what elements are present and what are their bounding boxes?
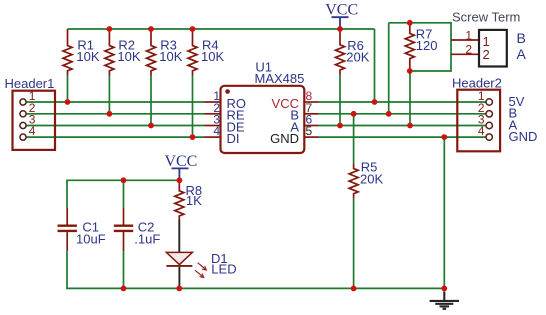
- svg-text:10K: 10K: [159, 49, 182, 64]
- svg-text:VCC: VCC: [272, 96, 299, 111]
- svg-text:VCC: VCC: [164, 153, 197, 170]
- svg-text:A: A: [517, 46, 527, 62]
- svg-text:GND: GND: [509, 129, 538, 144]
- svg-text:B: B: [517, 30, 526, 46]
- svg-text:1K: 1K: [186, 193, 202, 208]
- svg-text:5: 5: [306, 124, 313, 138]
- svg-text:DI: DI: [227, 131, 240, 146]
- svg-text:MAX485: MAX485: [255, 71, 305, 86]
- svg-text:VCC: VCC: [325, 2, 358, 19]
- svg-text:4: 4: [29, 124, 36, 138]
- svg-text:2: 2: [483, 47, 490, 62]
- svg-text:GND: GND: [270, 131, 299, 146]
- svg-text:10K: 10K: [201, 49, 224, 64]
- svg-text:1: 1: [465, 28, 472, 42]
- svg-text:2: 2: [465, 43, 472, 57]
- svg-text:10K: 10K: [76, 49, 99, 64]
- svg-text:Screw Term: Screw Term: [452, 10, 520, 25]
- svg-text:10uF: 10uF: [76, 232, 106, 247]
- svg-text:10K: 10K: [117, 49, 140, 64]
- svg-text:.1uF: .1uF: [134, 232, 160, 247]
- svg-text:LED: LED: [211, 261, 236, 276]
- svg-text:20K: 20K: [346, 49, 369, 64]
- svg-text:4: 4: [478, 124, 485, 138]
- svg-text:20K: 20K: [360, 172, 383, 187]
- svg-text:120: 120: [416, 38, 438, 53]
- svg-text:4: 4: [213, 124, 220, 138]
